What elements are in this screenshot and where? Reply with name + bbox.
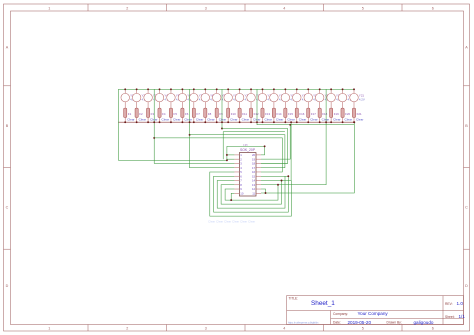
wire group4 to pin18 (221, 89, 223, 128)
lamp Y17 (304, 89, 313, 108)
resistor F1 (124, 108, 127, 122)
junction at lamp Y19 top (330, 88, 332, 90)
lamp Y18 (315, 89, 324, 108)
wire group2 to pin3 (154, 89, 234, 163)
svg-text:1: 1 (48, 327, 50, 331)
svg-text:F18: F18 (322, 112, 327, 116)
svg-text:2: 2 (126, 327, 128, 331)
lamp Y16 (293, 89, 302, 108)
lamp Y6 labels (187, 94, 193, 102)
junction at resistor F6 bottom (181, 121, 183, 123)
junction at lamp Y4 top (159, 88, 161, 90)
wire pin7 spiral (217, 176, 285, 208)
lamp Y16 labels (302, 94, 308, 102)
svg-text:F10: F10 (231, 112, 236, 116)
resistor F21 (352, 108, 355, 122)
junction at lamp Y13 top (262, 88, 264, 90)
resistor F6 labels (184, 112, 191, 122)
resistor F4 (158, 108, 161, 122)
svg-text:F1: F1 (128, 112, 132, 116)
wire group3 to pin4 (190, 89, 235, 167)
lamp Y13 labels (267, 94, 273, 102)
svg-text:F19: F19 (334, 112, 339, 116)
resistor F10 (227, 108, 230, 122)
svg-text:6: 6 (432, 7, 434, 11)
svg-text:Clear: Clear (287, 118, 294, 122)
junction at lamp Y5 top (170, 88, 172, 90)
lamp Y4 (155, 89, 164, 108)
junction at resistor F10 bottom (227, 121, 229, 123)
svg-text:Clear: Clear (264, 118, 271, 122)
lamp Y19 (327, 89, 336, 108)
resistor F5 (169, 108, 172, 122)
junction at resistor F5 bottom (170, 121, 172, 123)
svg-text:F20: F20 (345, 112, 350, 116)
wire pin19 drop (261, 125, 290, 159)
lamp Y2 labels (142, 94, 148, 102)
junction at lamp Y7 top (193, 88, 195, 90)
junction at lamp Y16 top (296, 88, 298, 90)
resistor F10 labels (230, 112, 237, 122)
resistor F11 (238, 108, 241, 122)
junction at resistor F8 bottom (204, 121, 206, 123)
svg-text:F15: F15 (288, 112, 293, 116)
wire group7 end to pin11 (261, 122, 354, 193)
lamp Y21 labels (359, 94, 365, 102)
wire pin1 stub link (227, 154, 235, 156)
resistor F16 labels (299, 112, 306, 122)
resistor F3 labels (150, 112, 157, 122)
svg-text:4.2V: 4.2V (359, 97, 365, 101)
lamp Y10 (224, 89, 233, 108)
top bus wire (118, 88, 354, 90)
resistor F17 labels (310, 112, 317, 122)
lamp Y6 (178, 89, 187, 108)
frame row ticks and letters A-D (4, 46, 470, 289)
lamp Y15 (281, 89, 290, 108)
svg-text:Clear: Clear (356, 118, 363, 122)
sheet name Sheet_1 (311, 300, 335, 307)
junction pin12 jog (265, 192, 267, 194)
resistor F15 (284, 108, 287, 122)
svg-text:galigoudo: galigoudo (414, 320, 434, 325)
wire pin9 spiral (225, 185, 278, 200)
url note (288, 321, 319, 324)
lamp Y14 labels (279, 94, 285, 102)
lamp Y8 (201, 89, 210, 108)
wire group5-6 boundary to pin14 (261, 122, 291, 180)
svg-text:1/1: 1/1 (459, 314, 466, 319)
lamp Y18 labels (325, 94, 331, 102)
resistor F5 labels (173, 112, 180, 122)
junction pin15 end (287, 175, 289, 177)
svg-text:Clear: Clear (276, 118, 283, 122)
junction at lamp Y11 top (239, 88, 241, 90)
svg-text:6: 6 (432, 327, 434, 331)
lamp Y3 (144, 89, 153, 108)
svg-text:Clear Clear Clear Clear Cl: Clear Clear Clear Clear Clear Clear (208, 219, 255, 223)
svg-text:Clear: Clear (173, 118, 180, 122)
lamp Y1 (121, 89, 130, 108)
junction at lamp Y1 top (124, 88, 126, 90)
date row (333, 320, 434, 325)
junction bottom bus (189, 121, 191, 123)
lamp Y17 labels (313, 94, 319, 102)
resistor F4 labels (162, 112, 169, 122)
resistor F7 labels (196, 112, 203, 122)
svg-text:Clear: Clear (333, 118, 340, 122)
junction at resistor F12 bottom (250, 121, 252, 123)
resistor F15 labels (287, 112, 294, 122)
svg-text:F4: F4 (162, 112, 166, 116)
svg-text:D: D (465, 284, 468, 288)
lamp Y5 (167, 89, 176, 108)
lamp Y10 labels (233, 94, 239, 102)
junction node pin2 feed (226, 159, 228, 161)
junction bottom bus (325, 121, 327, 123)
resistor F12 labels (253, 112, 260, 122)
junction at resistor F21 bottom (353, 121, 355, 123)
lamp Y21 (350, 89, 359, 108)
resistor F20 labels (345, 112, 352, 122)
lamp Y11 labels (245, 94, 251, 102)
junction at resistor F15 bottom (284, 121, 286, 123)
svg-text:10: 10 (240, 191, 244, 195)
junction at lamp Y6 top (181, 88, 183, 90)
svg-text:3: 3 (205, 7, 207, 11)
U1 pin numbers (240, 153, 255, 195)
resistor F17 (307, 108, 310, 122)
wire nest drop at 223 (222, 132, 224, 160)
svg-text:Clear: Clear (219, 118, 226, 122)
resistor F14 (272, 108, 275, 122)
svg-text:Sheet_1: Sheet_1 (311, 300, 335, 307)
resistor F18 (318, 108, 321, 122)
lamp Y11 (235, 89, 244, 108)
lamp Y1 labels (130, 94, 136, 102)
svg-text:1.0: 1.0 (457, 301, 464, 306)
company row (333, 311, 388, 316)
svg-text:F3: F3 (151, 112, 155, 116)
lamp Y12 (247, 89, 256, 108)
svg-text:5: 5 (362, 327, 364, 331)
junction at resistor F4 bottom (159, 121, 161, 123)
junction at lamp Y3 top (147, 88, 149, 90)
svg-text:D: D (6, 284, 9, 288)
junction at lamp Y15 top (284, 88, 286, 90)
sheet number (445, 314, 465, 319)
lamp Y20 (338, 89, 347, 108)
svg-text:F17: F17 (311, 112, 316, 116)
junction pin10 to spiral (230, 199, 232, 201)
svg-text:C: C (6, 206, 9, 210)
svg-text:11: 11 (252, 191, 255, 195)
wire pin20 loop (227, 146, 265, 155)
resistor F9 (215, 108, 218, 122)
svg-text:Clear: Clear (150, 118, 157, 122)
lamp Y12 labels (256, 94, 262, 102)
svg-text:5: 5 (362, 7, 364, 11)
svg-text:REV:: REV: (445, 302, 453, 306)
svg-text:F9: F9 (219, 112, 223, 116)
resistor F8 (204, 108, 207, 122)
junction at lamp Y18 top (319, 88, 321, 90)
svg-text:U1: U1 (244, 144, 248, 148)
svg-text:Company:: Company: (333, 312, 348, 316)
U1 reference (244, 144, 248, 148)
junction at resistor F9 bottom (216, 121, 218, 123)
svg-text:3: 3 (205, 327, 207, 331)
net label row (208, 219, 255, 223)
wire pin6 spiral (214, 176, 289, 212)
resistor bottom bus wire (118, 121, 354, 123)
junction bottom bus (290, 121, 292, 123)
resistor F19 (330, 108, 333, 122)
lamp Y5 labels (176, 94, 182, 102)
resistor F12 (249, 108, 252, 122)
junction at resistor F1 bottom (124, 121, 126, 123)
title block grid (287, 296, 464, 325)
svg-text:F7: F7 (196, 112, 200, 116)
lamp Y3 labels (153, 94, 159, 102)
svg-text:Clear: Clear (162, 118, 169, 122)
frame column ticks and numbers 1-6 (48, 4, 434, 331)
wire pin10 jog (231, 193, 234, 200)
svg-text:4: 4 (283, 327, 285, 331)
op-amp socket U1 body and pins (234, 153, 261, 196)
lamp Y15 labels (290, 94, 296, 102)
junction at resistor F2 bottom (136, 121, 138, 123)
junction at resistor F16 bottom (296, 121, 298, 123)
svg-text:2: 2 (126, 7, 128, 11)
wire pin2 stub link (227, 158, 235, 160)
resistor F8 labels (207, 112, 214, 122)
junction at lamp Y14 top (273, 88, 275, 90)
junction bottom bus (153, 121, 155, 123)
junction at resistor F17 bottom (307, 121, 309, 123)
junction at resistor F13 bottom (262, 121, 264, 123)
junction at resistor F19 bottom (330, 121, 332, 123)
svg-text:Clear: Clear (127, 118, 134, 122)
wire group4 top route (222, 129, 288, 164)
svg-text:Clear: Clear (242, 118, 249, 122)
svg-text:4: 4 (283, 7, 285, 11)
junction pin20 loop corner (264, 145, 266, 147)
svg-text:F16: F16 (299, 112, 304, 116)
lamp Y2 (132, 89, 141, 108)
lamp Y7 (190, 89, 199, 108)
resistor F2 labels (139, 112, 146, 122)
resistor F14 labels (276, 112, 283, 122)
resistor F6 (181, 108, 184, 122)
svg-text:F21: F21 (357, 112, 362, 116)
junction at lamp Y21 top (353, 88, 355, 90)
junction pin13 mid (277, 184, 279, 186)
svg-text:F11: F11 (242, 112, 247, 116)
junction at resistor F14 bottom (273, 121, 275, 123)
svg-text:Your Company: Your Company (358, 311, 389, 316)
svg-text:Clear: Clear (345, 118, 352, 122)
resistor F13 labels (264, 112, 271, 122)
svg-text:Clear: Clear (139, 118, 146, 122)
svg-text:Date:: Date: (333, 321, 341, 325)
lamp Y9 labels (222, 94, 228, 102)
svg-text:TITLE:: TITLE: (289, 297, 299, 301)
wire pin8 spiral (221, 180, 281, 204)
junction at lamp Y2 top (136, 88, 138, 90)
resistor F19 labels (333, 112, 340, 122)
svg-text:Clear: Clear (299, 118, 306, 122)
wire group5 top route to pin19 (257, 89, 354, 125)
lamp Y4 labels (164, 94, 170, 102)
wire group1 bus to pins 1-2 (118, 89, 226, 160)
lamp Y19 labels (336, 94, 342, 102)
junction bottom bus (353, 121, 355, 123)
resistor F16 (295, 108, 298, 122)
junction at resistor F11 bottom (239, 121, 241, 123)
junction pin14 mid (281, 180, 283, 182)
resistor F9 labels (219, 112, 226, 122)
svg-text:F5: F5 (174, 112, 178, 116)
junction group2 branch (153, 137, 155, 139)
junction at lamp Y12 top (250, 88, 252, 90)
junction group3 branch (189, 134, 191, 136)
lamp Y20 labels (347, 94, 353, 102)
title label (289, 297, 299, 301)
resistor F3 (146, 108, 149, 122)
svg-text:Clear: Clear (207, 118, 214, 122)
resistor F11 labels (242, 112, 249, 122)
junction group4 corner (221, 128, 223, 130)
lamp Y14 (270, 89, 279, 108)
resistor F2 (135, 108, 138, 122)
junction at resistor F18 bottom (319, 121, 321, 123)
resistor F7 (192, 108, 195, 122)
svg-text:Clear: Clear (322, 118, 329, 122)
rev label (445, 301, 463, 306)
wire pin15 stub (261, 175, 288, 177)
junction at resistor F3 bottom (147, 121, 149, 123)
resistor F18 labels (322, 112, 329, 122)
junction at resistor F20 bottom (342, 121, 344, 123)
svg-text:Sheet:: Sheet: (445, 315, 455, 319)
junction pin19 drop (289, 124, 291, 126)
svg-text:httpc.le.aliexpress.y.dhgkfuls: httpc.le.aliexpress.y.dhgkfuls (288, 321, 319, 324)
svg-text:2019-05-20: 2019-05-20 (348, 320, 372, 325)
svg-text:C: C (465, 206, 468, 210)
lamp Y9 (212, 89, 221, 108)
svg-text:F6: F6 (185, 112, 189, 116)
svg-text:Drawn By:: Drawn By: (387, 321, 402, 325)
lamp Y7 labels (199, 94, 205, 102)
svg-text:SOK_20P: SOK_20P (240, 148, 256, 152)
svg-text:Clear: Clear (184, 118, 191, 122)
resistor F20 (341, 108, 344, 122)
junction at lamp Y17 top (307, 88, 309, 90)
junction at resistor F7 bottom (193, 121, 195, 123)
wire pin12 jog (261, 189, 266, 193)
svg-text:1: 1 (48, 7, 50, 11)
svg-text:Clear: Clear (230, 118, 237, 122)
svg-text:F14: F14 (277, 112, 282, 116)
wire group3 branch to pin17 (190, 135, 285, 168)
junction at lamp Y20 top (342, 88, 344, 90)
resistor F1 labels (127, 112, 134, 122)
junction at lamp Y10 top (227, 88, 229, 90)
junction node pin1 (226, 154, 228, 156)
junction bottom bus (256, 121, 258, 123)
wire pin1 branch (226, 146, 228, 160)
resistor F13 (261, 108, 264, 122)
lamp Y13 (258, 89, 267, 108)
junction bottom bus (221, 121, 223, 123)
wire nest line to pin17b (223, 131, 285, 133)
svg-text:F12: F12 (254, 112, 259, 116)
svg-text:F8: F8 (208, 112, 212, 116)
wire group2 branch to pin16 (154, 138, 282, 172)
resistor F21 labels (356, 112, 363, 122)
wire group6-7 boundary to pin13 (261, 89, 326, 184)
junction at lamp Y9 top (216, 88, 218, 90)
svg-text:Clear: Clear (196, 118, 203, 122)
lamp Y8 labels (210, 94, 216, 102)
U1 value SOK_20P (240, 148, 256, 152)
svg-text:Clear: Clear (310, 118, 317, 122)
junction at lamp Y8 top (204, 88, 206, 90)
svg-text:F13: F13 (265, 112, 270, 116)
wire pin5 spiral (210, 172, 292, 216)
svg-text:F2: F2 (139, 112, 143, 116)
